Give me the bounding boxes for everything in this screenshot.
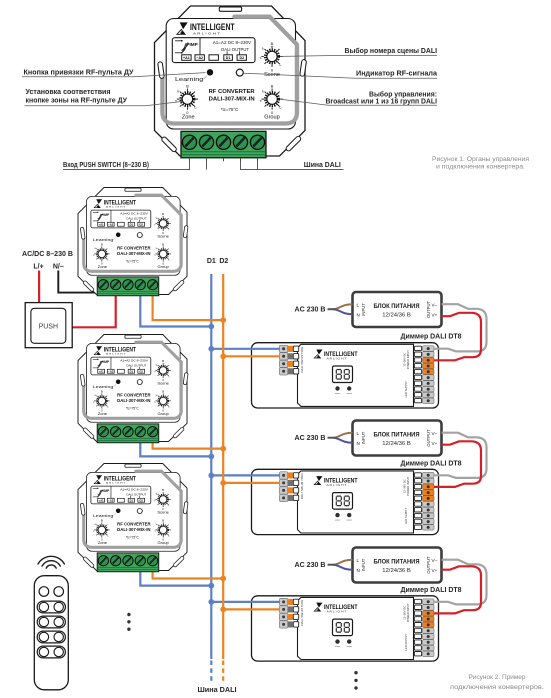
dimmer DT8 #1 (252, 343, 439, 408)
terminal stub ticks (190, 158, 258, 161)
converter U3 (78, 335, 188, 443)
junction dots D1 bus (208, 324, 214, 605)
converter U4 (78, 464, 188, 572)
svg-text:Broadcast или 1 из 16 групп DA: Broadcast или 1 из 16 групп DALI (326, 96, 438, 105)
AC input wires PSU1 (328, 304, 353, 314)
bracket: PUSH SWITCH input terminals (63, 159, 190, 170)
RF waves icon (38, 556, 64, 568)
callout line to Learning button (22, 73, 206, 77)
orange wire bus to dimmer3 (223, 608, 280, 610)
svg-text:D2: D2 (219, 258, 228, 265)
gray V- wire PSU2 to dimmer2 (434, 433, 487, 478)
svg-text:Диммер DALI DT8: Диммер DALI DT8 (401, 585, 462, 594)
callout line from Group knob (282, 99, 438, 105)
dimmer DT8 #3 (252, 596, 439, 661)
blue wire bus to dimmer2 (211, 474, 280, 476)
svg-text:L/+: L/+ (33, 264, 43, 271)
red V+ wire PSU1 to dimmer1 (434, 313, 481, 361)
svg-text:Рисунок 2. Пример: Рисунок 2. Пример (469, 674, 526, 681)
blue wire converter D to bus (140, 566, 211, 586)
svg-text:D1: D1 (207, 258, 216, 265)
PUSH switch S1 (25, 303, 72, 348)
callout line from Scene knob (282, 55, 438, 56)
callout line from RF LED (243, 73, 437, 78)
svg-text:PUSH: PUSH (39, 323, 58, 330)
converter U1 (main) (155, 6, 307, 158)
dimmer DT8 #2 (252, 469, 439, 534)
svg-text:AC/DC 8–230 В: AC/DC 8–230 В (22, 249, 73, 258)
svg-text:N/–: N/– (53, 264, 64, 271)
bracket: DALI bus terminals (241, 159, 344, 170)
PSU #1 (353, 292, 442, 327)
callout line to Zone knob (25, 101, 184, 105)
svg-text:AC 230 В: AC 230 В (295, 305, 326, 314)
blue wire converter C to bus (140, 437, 211, 456)
DALI bus wire D1 (blue) (210, 274, 212, 659)
svg-text:подключения конвертеров.: подключения конвертеров. (450, 684, 544, 691)
converter U2 (78, 188, 188, 296)
ellipsis below converters (127, 613, 130, 631)
svg-text:Рисунок 1. Органы управления: Рисунок 1. Органы управления (432, 156, 529, 163)
red wire PUSH to converter B (72, 291, 116, 327)
svg-text:Диммер DALI DT8: Диммер DALI DT8 (401, 458, 462, 467)
red wire L to PUSH (38, 271, 40, 304)
DALI bus wire D2 (orange) (222, 274, 224, 659)
svg-text:Кнопка привязки RF-пульта ДУ: Кнопка привязки RF-пульта ДУ (24, 67, 134, 76)
blue wire bus to dimmer1 (211, 348, 280, 350)
blue wire bus to dimmer3 (211, 601, 280, 603)
AC input wires PSU2 (328, 433, 353, 443)
orange wire converter D to bus (153, 566, 224, 579)
PSU #2 (353, 421, 442, 456)
gray V- wire PSU3 to dimmer3 (434, 560, 487, 605)
svg-text:AC 230 В: AC 230 В (295, 560, 326, 569)
svg-text:и подключения конвертера.: и подключения конвертера. (436, 164, 525, 171)
orange wire bus to dimmer2 (223, 482, 280, 484)
svg-text:Шина DALI: Шина DALI (304, 160, 341, 169)
red V+ wire PSU3 to dimmer3 (434, 566, 481, 613)
PSU #3 (353, 548, 442, 583)
svg-text:Выбор номера сцены DALI: Выбор номера сцены DALI (345, 46, 438, 55)
svg-text:Диммер DALI DT8: Диммер DALI DT8 (401, 332, 462, 341)
svg-text:кнопке зоны на RF-пульте ДУ: кнопке зоны на RF-пульте ДУ (26, 95, 128, 104)
black wire N to converter B (58, 271, 103, 293)
orange wire converter B to bus (153, 290, 224, 320)
svg-text:Шина DALI: Шина DALI (198, 685, 237, 694)
svg-text:Индикатор RF-сигнала: Индикатор RF-сигнала (356, 69, 438, 78)
junction dots D2 bus (220, 317, 226, 612)
gray V- wire PSU1 to dimmer1 (434, 304, 487, 351)
RF remote control (34, 576, 68, 690)
AC input wires PSU3 (328, 560, 353, 570)
orange wire converter C to bus (153, 437, 224, 449)
blue wire converter B to bus (140, 290, 211, 327)
svg-text:Вход PUSH SWITCH (8–230 В): Вход PUSH SWITCH (8–230 В) (63, 160, 149, 169)
svg-text:AC 230 В: AC 230 В (295, 433, 326, 442)
ellipsis below dimmer3 (354, 671, 357, 690)
orange wire bus to dimmer1 (223, 355, 280, 357)
red V+ wire PSU2 to dimmer2 (434, 441, 481, 487)
